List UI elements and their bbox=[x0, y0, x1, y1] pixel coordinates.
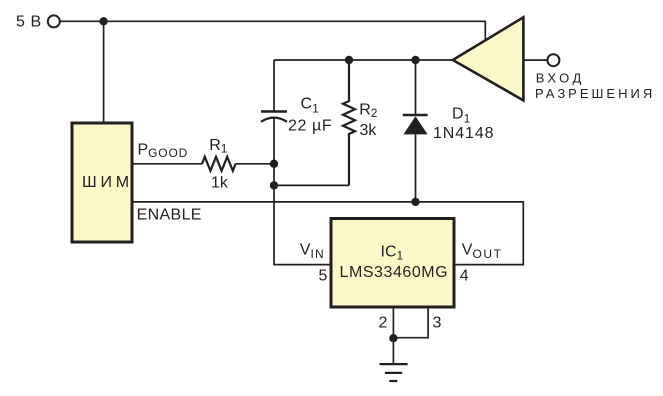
svg-text:22 µF: 22 µF bbox=[288, 118, 332, 135]
svg-text:1k: 1k bbox=[211, 175, 229, 192]
buffer U1 (enable driver) bbox=[453, 17, 524, 100]
junction R2 top bbox=[345, 56, 353, 64]
svg-text:2: 2 bbox=[379, 315, 388, 332]
terminal ВХОД РАЗРЕШЕНИЯ bbox=[547, 54, 559, 66]
wire buffer to terminal bbox=[524, 59, 549, 61]
wire R1 to node A bbox=[236, 163, 274, 165]
wire 5V rail to buffer bbox=[60, 21, 485, 42]
svg-text:5: 5 bbox=[319, 267, 328, 284]
wire PGOOD to R1 bbox=[134, 163, 203, 165]
wire top net (node line to buffer apex) bbox=[274, 59, 453, 61]
resistor R2 bbox=[343, 60, 355, 185]
svg-text:РАЗРЕШЕНИЯ: РАЗРЕШЕНИЯ bbox=[535, 86, 655, 101]
wire 5V down to ШИМ bbox=[103, 21, 105, 123]
junction 5V / ШИМ supply bbox=[99, 17, 107, 25]
ground bbox=[380, 363, 408, 365]
junction D1 anode on ENABLE bbox=[411, 198, 419, 206]
wire node A vertical (C1 bottom to VIN) bbox=[274, 118, 331, 265]
wire to ground bbox=[392, 338, 394, 364]
svg-text:LMS33460MG: LMS33460MG bbox=[340, 264, 449, 281]
wire C1 top to top net bbox=[273, 60, 275, 111]
resistor R1 bbox=[202, 157, 236, 171]
junction ground node bbox=[389, 334, 397, 342]
node A junction (R1/C1) bbox=[270, 160, 278, 168]
terminal 5V input bbox=[48, 15, 60, 27]
PWM controller ШИМ box bbox=[72, 123, 132, 242]
wire ENABLE net bbox=[134, 202, 524, 265]
svg-text:ENABLE: ENABLE bbox=[137, 206, 202, 223]
capacitor C1 bbox=[261, 110, 287, 112]
wire pin 2 bbox=[392, 307, 394, 338]
IC1 box LMS33460MG bbox=[331, 219, 454, 308]
svg-text:3: 3 bbox=[433, 315, 442, 332]
wire node A to R2 bottom bbox=[274, 184, 349, 186]
junction D1 top bbox=[411, 56, 419, 64]
wire pin 3 bbox=[393, 307, 428, 338]
diode D1 bbox=[415, 60, 417, 114]
svg-text:ВХОД: ВХОД bbox=[536, 71, 585, 86]
svg-text:1N4148: 1N4148 bbox=[433, 125, 494, 142]
svg-text:4: 4 bbox=[460, 268, 469, 285]
node A junction (R2 link) bbox=[270, 181, 278, 189]
svg-text:ШИМ: ШИМ bbox=[82, 174, 133, 191]
svg-text:3k: 3k bbox=[360, 122, 378, 139]
svg-text:5 В: 5 В bbox=[16, 14, 42, 31]
